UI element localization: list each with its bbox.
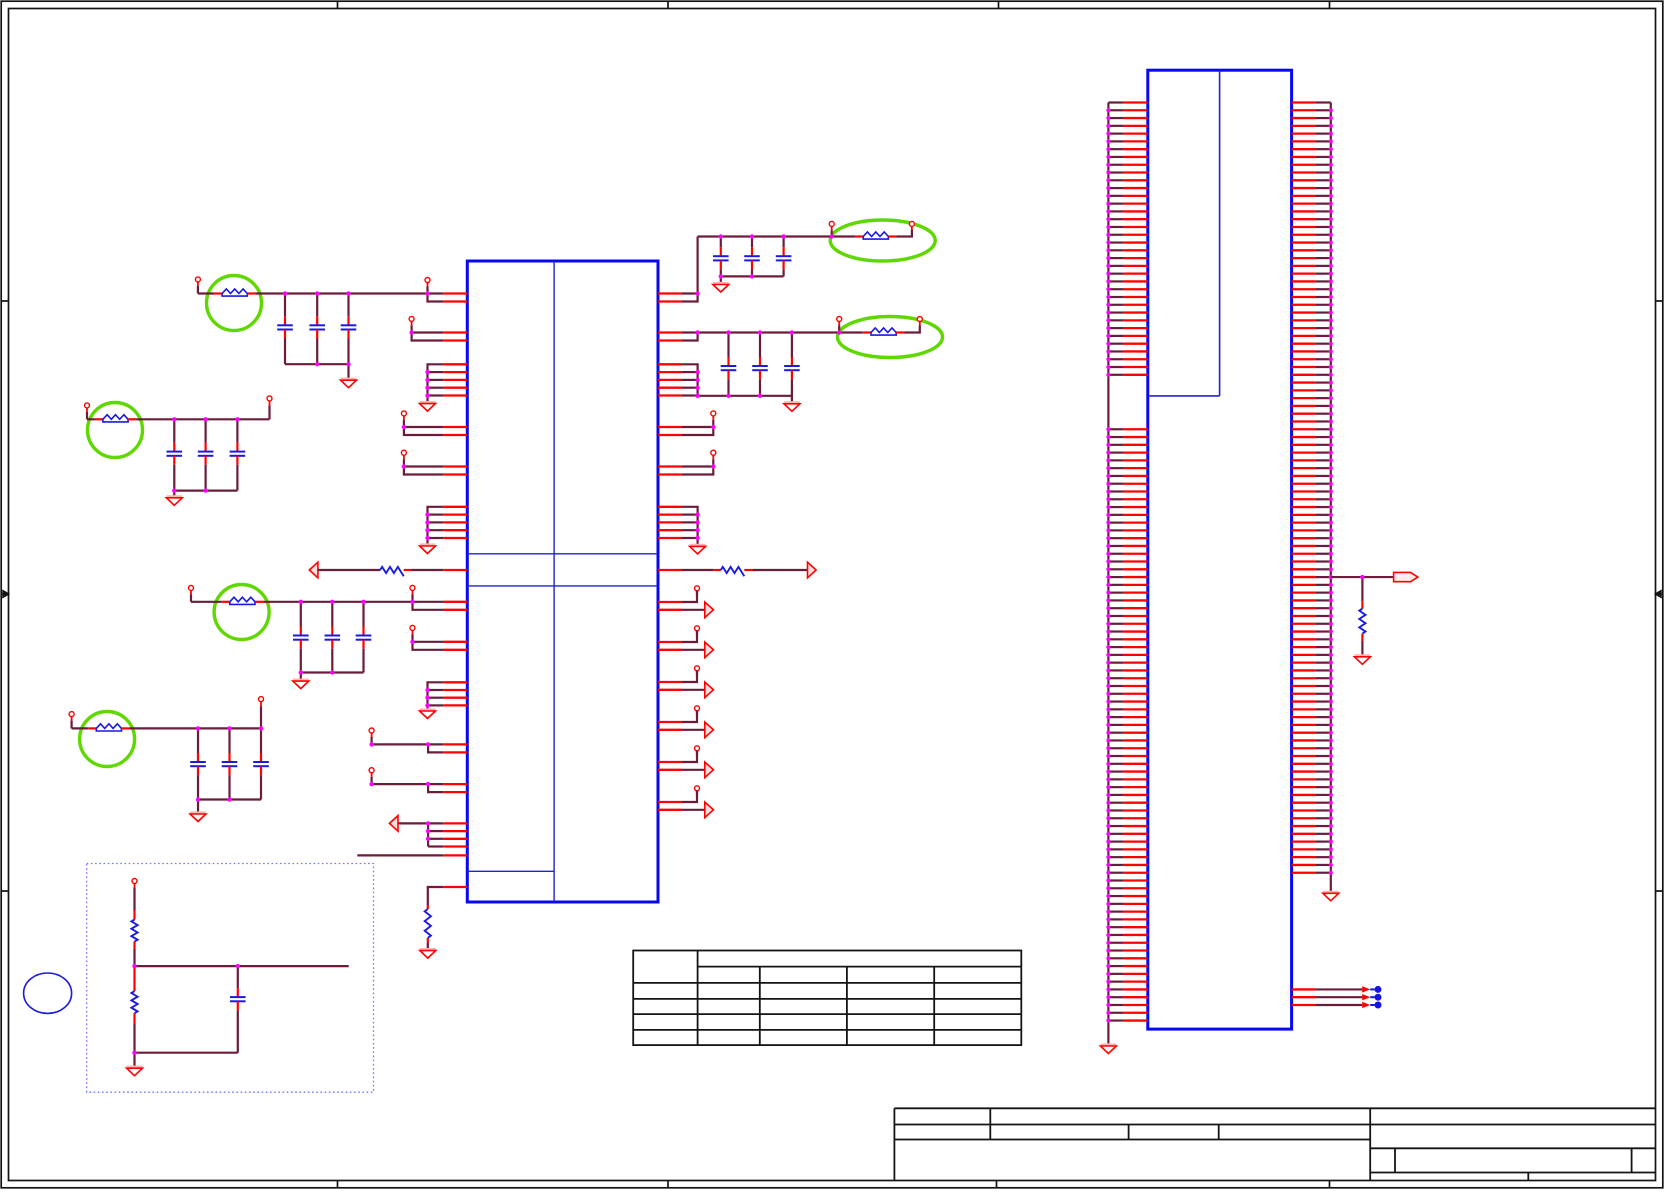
junction ground node	[132, 1051, 136, 1055]
frame zone tick right lower	[1656, 890, 1663, 892]
IC U1 right pin pair rows 762/769.8	[658, 762, 682, 770]
wire G2 bus vertical	[428, 507, 444, 546]
port P10	[369, 768, 374, 784]
wire ground stem dashed box	[133, 1053, 135, 1069]
junction circuit2 bus C14	[172, 488, 176, 492]
IC U1 right pin group G2R rows 506.8-538 (5 pins)	[658, 507, 682, 538]
port P12 circuitA right	[909, 221, 914, 230]
capacitor C15	[198, 419, 214, 490]
port P16	[711, 450, 716, 466]
wire arrow-group1 pinA to port riser	[682, 588, 697, 602]
capacitor C16	[230, 419, 246, 490]
resistor R6 lead top	[133, 968, 135, 991]
junction circuit3 bus C4	[299, 670, 303, 674]
resistor R1 row570 left	[380, 567, 404, 576]
IC U1 left pin row 855.4	[443, 854, 467, 856]
resistor R2 lead bottom	[427, 938, 429, 943]
wire row570 right 1	[682, 569, 713, 571]
capacitor C9	[776, 237, 792, 277]
frame zone tick left lower	[1, 890, 8, 892]
junction circuitA port/bead	[830, 234, 834, 238]
frame zone tick top 4	[1329, 1, 1331, 8]
junction circuitA C7	[719, 234, 723, 238]
junction LE port	[369, 782, 373, 786]
ground circuit2	[166, 495, 182, 498]
capacitor C14	[167, 419, 183, 490]
wire arrow-group3 pinB	[682, 689, 705, 691]
junction circuit1 bus C2	[315, 362, 319, 366]
wire arrow-group2 pinB	[682, 649, 705, 651]
capacitor C13	[230, 966, 246, 1053]
wire circuit5 cap bottom bus	[198, 798, 261, 800]
wire special net row61 to off-page	[1331, 576, 1394, 578]
capacitor C3	[341, 294, 357, 365]
junction L1 port	[425, 291, 429, 295]
IC U1 left pin pair rows 784.1/792.1	[443, 784, 467, 792]
port P23 dashed box	[132, 879, 137, 911]
ground connector right	[1323, 891, 1339, 894]
IC U1 right pin pair rows 642/649.8	[658, 642, 682, 650]
port P11 circuitA left	[829, 221, 834, 236]
junction circuit3 C6	[361, 600, 365, 604]
wire circuitB top bus	[698, 331, 840, 333]
port P18	[695, 626, 700, 635]
capacitor C6	[356, 602, 372, 673]
junction circuit1 cap C1	[283, 291, 287, 295]
wire circuitB ground stem	[791, 396, 793, 404]
wire R5 to node	[133, 949, 135, 966]
IC U1 left pin group G3 rows 682-705 (4 pins)	[443, 682, 467, 705]
ferrite bead FB4 lead left	[863, 331, 871, 333]
IC U1 right pin pair rows 602/609.8	[658, 602, 682, 610]
ground G2 left	[420, 543, 436, 546]
ground G3 left	[420, 708, 436, 711]
ground circuit5	[190, 811, 206, 814]
junction special row61 resistor tap	[1360, 575, 1364, 579]
resistor R4 lead bottom	[1361, 634, 1363, 641]
junction circuit3 C4	[299, 600, 303, 604]
green highlight circle around FB6	[80, 712, 135, 767]
frame zone tick top 3	[998, 1, 1000, 8]
junction L2 port	[409, 330, 413, 334]
wire circuit1 cap bottom bus	[285, 363, 349, 365]
ferrite bead FB1 lead left	[214, 292, 222, 294]
junction circuit3 bus C5	[330, 670, 334, 674]
junction R1 riser	[695, 291, 699, 295]
ferrite bead FB2 lead left	[222, 601, 230, 603]
arrow port right group2	[705, 642, 714, 658]
revision table	[633, 951, 1021, 1046]
blue ellipse marker	[24, 973, 72, 1013]
port P8	[410, 625, 415, 641]
green highlight ellipse around FB3	[830, 220, 935, 261]
frame zone tick bottom 3	[996, 1181, 998, 1188]
wire circuit3 ground stem	[300, 673, 302, 682]
connector J1 internal compartment vertical	[1219, 70, 1221, 396]
IC U1 internal divider horizontal bottom-left	[467, 870, 554, 872]
wire circuitA ground stem	[720, 276, 722, 284]
junction circuitA bus C8	[750, 274, 754, 278]
wire special row61 down	[1361, 577, 1363, 601]
ferrite bead FB6 lead left	[88, 727, 96, 729]
wire G1 bus vertical	[428, 364, 444, 403]
IC U1 internal divider horizontal upper	[467, 553, 658, 555]
frame zone tick bottom 4	[1329, 1181, 1331, 1188]
junction circuit5 C17	[196, 726, 200, 730]
wire pair LC loop	[413, 642, 444, 650]
port P33 circuit5 right stem	[260, 702, 262, 707]
capacitor C10	[721, 333, 737, 396]
IC U1 right pin pair rows 293.5/301.5	[658, 294, 682, 302]
wire circuit3 left segment	[191, 601, 222, 603]
wire pin2 loop L1	[428, 294, 444, 302]
port P9	[369, 728, 374, 744]
wire row570 left	[318, 569, 380, 571]
wire circuitB to bead	[839, 331, 863, 333]
ferrite bead FB3 lead right	[888, 235, 896, 237]
wire circuit5 right riser	[260, 706, 262, 728]
ferrite bead FB4 lead right	[896, 331, 904, 333]
junction circuit2 bus C15	[203, 488, 207, 492]
arrow port right row570	[808, 562, 817, 578]
terminal blue dot 2	[1370, 996, 1374, 998]
ferrite bead FB6 lead right	[122, 727, 130, 729]
off-page connector pennant	[1394, 572, 1418, 581]
wire circuitB right end	[904, 326, 919, 333]
junction G4 top	[426, 821, 430, 825]
wire pin2 loop LB	[413, 602, 444, 610]
green highlight circle around FB1	[207, 276, 262, 331]
junction circuitB C11	[758, 330, 762, 334]
wire G3 pin returns	[425, 688, 443, 708]
port P13 circuitB left	[837, 317, 842, 333]
wire G3 bus vertical	[428, 682, 444, 711]
wire circuit3 to IC	[263, 601, 443, 603]
arrow port right group1	[705, 602, 714, 618]
title block	[894, 1108, 1655, 1180]
wire circuitA top bus	[698, 235, 832, 237]
wire pair LD loop	[372, 744, 444, 752]
junction circuit1 cap C3	[346, 291, 350, 295]
junction LD loop	[426, 742, 430, 746]
wire circuitA cap bottom bus	[721, 275, 784, 277]
wire circuit2 main	[136, 418, 269, 420]
resistor R6 vertical	[131, 991, 137, 1013]
wire circuit1 ground stem	[347, 364, 349, 380]
junction circuit2 C14	[172, 417, 176, 421]
wire G1R bus vertical	[682, 364, 698, 396]
wire circuitA right end	[896, 230, 912, 237]
wire pair R4 loop	[682, 467, 713, 475]
ground circuit3	[293, 679, 309, 682]
ferrite bead FB1 lead right	[247, 292, 255, 294]
wire R2 to ground	[427, 943, 429, 951]
IC U1 left pin pair rows 293.5/301.5	[443, 294, 467, 302]
junction circuitB C12	[790, 330, 794, 334]
wire circuitB cap bottom bus	[698, 395, 792, 397]
terminal arrow 3	[1362, 1002, 1370, 1008]
ground circuitA	[713, 282, 729, 285]
ferrite bead FB2 lead right	[255, 601, 263, 603]
frame zone tick top 1	[337, 1, 339, 8]
port P22	[695, 786, 700, 795]
resistor R3 row570 right	[721, 567, 745, 576]
IC U1 left pin pair rows 427/435	[443, 427, 467, 435]
connector J1 right pin field (100 pins)	[1292, 103, 1333, 875]
terminal arrow 1	[1362, 986, 1370, 992]
port P30 circuit2 left	[85, 403, 90, 419]
ground circuit1	[341, 378, 357, 381]
wire arrow-group4 pinB	[682, 729, 705, 731]
frame mid arrow left edge	[1, 591, 8, 598]
capacitor C2	[309, 294, 325, 365]
IC U1 left pin row 570	[443, 569, 467, 571]
port P3	[409, 316, 414, 332]
junction circuitB bus C11	[758, 394, 762, 398]
wire circuit2 cap bottom bus	[174, 490, 237, 492]
wire arrow-group5 pinB	[682, 769, 705, 771]
resistor R2 lead top	[427, 905, 429, 909]
IC U1 left pin pair rows 744.4/752.4	[443, 744, 467, 752]
wire bottom return	[135, 1052, 238, 1054]
wire circuit3 cap bottom bus	[301, 671, 364, 673]
junction R3 port	[711, 425, 715, 429]
wire circuit5 left segment	[72, 727, 89, 729]
port P31 circuit2 right	[267, 396, 272, 401]
IC U1 left pin group G2 rows 506.8-538 (5 pins)	[443, 507, 467, 538]
ground below R2	[420, 948, 436, 951]
frame zone tick left	[1, 300, 8, 302]
junction circuitB bus C10	[726, 394, 730, 398]
wire circuit2 left segment	[87, 418, 95, 420]
junction circuit5 C18	[227, 726, 231, 730]
ground G1 left	[420, 401, 436, 404]
arrow port left G4	[389, 816, 398, 832]
ferrite bead FB1	[222, 289, 247, 294]
frame zone tick right	[1656, 300, 1663, 302]
junction circuit5 C19	[259, 726, 263, 730]
wire circuit5 ground stem	[197, 800, 199, 815]
wire pair L3 loop	[404, 427, 443, 435]
wire arrow-group3 pinA to port riser	[682, 668, 697, 682]
resistor R5 lead top	[133, 910, 135, 920]
junction circuit1 cap C2	[315, 291, 319, 295]
green highlight ellipse around FB4	[838, 317, 943, 358]
IC U1 right pin pair rows 682/689.8	[658, 682, 682, 690]
IC U1 body	[467, 261, 658, 902]
wire arrow-group1 pinB	[682, 609, 705, 611]
wire G2R bus vertical	[682, 507, 698, 547]
ferrite bead FB3	[863, 232, 888, 237]
terminal blue dot 3	[1370, 1004, 1374, 1006]
junction circuit1 bus C3	[346, 362, 350, 366]
junction R2	[695, 330, 699, 334]
IC U1 internal divider vertical	[553, 261, 555, 902]
connector J1 body	[1148, 70, 1292, 1029]
IC U1 left pin group G1 rows 364-395 (5 pins)	[443, 364, 467, 395]
frame zone tick bottom 1	[337, 1181, 339, 1188]
arrow port right group4	[705, 722, 714, 738]
junction L3 port	[402, 425, 406, 429]
connector J1 bottom-right terminal pins (3)	[1292, 989, 1363, 1005]
green highlight circle around FB5	[88, 403, 143, 458]
resistor R3 lead left	[713, 569, 721, 571]
port P33 circuit5 right	[259, 697, 264, 702]
ground dashed box	[127, 1066, 143, 1069]
port P20	[695, 706, 700, 715]
wire G1 pin returns	[425, 370, 443, 398]
capacitor C17	[190, 728, 206, 799]
resistor R3 lead right	[744, 569, 753, 571]
port P21	[695, 746, 700, 755]
arrow port left row 570	[309, 562, 318, 578]
wire to pulldown resistor R2	[428, 887, 444, 905]
port P4	[401, 411, 406, 427]
arrow port right group3	[705, 682, 714, 698]
frame mid arrow right edge	[1655, 591, 1662, 598]
IC U1 right pin pair rows 332.5/340.5	[658, 333, 682, 341]
resistor R5 lead bottom	[133, 942, 135, 949]
connector J1 left pin field A (36 pins)	[1106, 103, 1148, 377]
junction LB port	[410, 600, 414, 604]
junction circuitB C10	[726, 330, 730, 334]
port P6	[410, 585, 415, 601]
wire arrow-group5 pinA to port riser	[682, 748, 697, 762]
capacitor C4	[293, 602, 309, 673]
capacitor C18	[222, 728, 238, 799]
green highlight circle around FB2	[214, 585, 269, 640]
ground below R4	[1354, 654, 1370, 657]
connector J1 left pin field B (77 pins)	[1106, 427, 1148, 1022]
arrow port right group6	[705, 802, 714, 818]
ferrite bead FB6	[96, 724, 121, 729]
IC U1 right pin group G1R rows 364-395 (5 pins)	[658, 364, 682, 395]
capacitor C12	[784, 333, 800, 396]
junction circuit5 bus C17	[196, 797, 200, 801]
wire circuitA to bead	[832, 235, 855, 237]
junction R4 port	[711, 464, 715, 468]
wire pair R3 loop	[682, 427, 713, 435]
resistor R5 vertical	[131, 920, 137, 942]
ground G2 right	[690, 544, 706, 547]
junction circuit3 C5	[330, 600, 334, 604]
ferrite bead FB5 lead left	[95, 418, 103, 420]
IC U1 left pin pair rows 466.5/474.5	[443, 467, 467, 475]
junction LE loop	[426, 782, 430, 786]
wire G4 pin returns	[426, 829, 443, 847]
wire net VCC1 horizontal	[255, 292, 443, 294]
junction L4 port	[402, 464, 406, 468]
capacitor C1	[277, 294, 293, 365]
terminal arrow 2	[1362, 994, 1370, 1000]
IC U1 internal divider horizontal lower	[467, 585, 658, 587]
IC U1 right pin pair rows 427/435	[658, 427, 682, 435]
port P14 circuitB right	[917, 317, 922, 327]
resistor R6 lead bottom	[133, 1013, 135, 1024]
port P5	[401, 450, 406, 466]
wire row570 right 2	[753, 569, 808, 571]
ferrite bead FB5	[103, 415, 128, 420]
ferrite bead FB5 lead right	[128, 418, 136, 420]
dashed selection box	[87, 864, 374, 1093]
resistor R2 vertical	[425, 909, 431, 938]
wire pair LE loop	[372, 784, 444, 792]
wire pair L4 loop	[404, 467, 443, 475]
wire G2 pin returns	[425, 512, 443, 540]
connector J1 internal compartment horizontal	[1150, 395, 1220, 397]
wire pair R2 to bus	[682, 333, 698, 341]
junction circuit2 C15	[203, 417, 207, 421]
junction LD port	[369, 742, 373, 746]
wire arrow-group4 pinA to port riser	[682, 708, 697, 722]
IC U1 left pin pair rows 332.5/340.5	[443, 333, 467, 341]
capacitor C8	[744, 237, 760, 277]
IC U1 left pin pair rows 601.8/609.8	[443, 602, 467, 610]
junction circuitA bus C7	[719, 274, 723, 278]
IC U1 right pin pair rows 466.5/474.5	[658, 467, 682, 475]
wire row570 to IC	[411, 569, 443, 571]
ground circuitB	[784, 401, 800, 404]
wire circuit2 right riser	[268, 405, 270, 419]
wire G4 bus vertical	[398, 823, 443, 846]
wire circuit5 main	[130, 727, 262, 729]
ground connector left	[1100, 1043, 1116, 1046]
wire circuit2 ground stem	[173, 491, 175, 498]
frame zone tick bottom 2	[667, 1181, 669, 1188]
port P31 circuit2 right stem	[269, 401, 271, 405]
wire arrow-group2 pinA to port riser	[682, 628, 697, 642]
resistor R4 lead top	[1361, 601, 1363, 608]
port P15	[711, 411, 716, 427]
junction circuit2 C16	[235, 417, 239, 421]
wire circuit1 left segment	[198, 292, 214, 294]
wire arrow-group6 pinB	[682, 809, 705, 811]
port P7 circuit3 left	[189, 585, 194, 601]
port P2 circuit1 left	[195, 277, 200, 294]
wire pair L2 loop	[412, 333, 444, 341]
resistor R4 vertical	[1359, 609, 1365, 634]
IC U1 left pin pair rows 641.8/649.8	[443, 642, 467, 650]
junction node A	[132, 964, 136, 968]
port P17	[695, 586, 700, 595]
wire G1R pin returns	[682, 370, 700, 398]
capacitor C5	[325, 602, 341, 673]
capacitor C11	[752, 333, 768, 396]
arrow port right group5	[705, 762, 714, 778]
wire row 855.4	[357, 854, 443, 856]
IC U1 right pin pair rows 722/729.8	[658, 722, 682, 730]
junction circuitA C9	[781, 234, 785, 238]
port P32 circuit5 left	[69, 712, 74, 729]
wire connector left ground bus	[1107, 103, 1109, 1047]
junction circuitA C8	[750, 234, 754, 238]
IC U1 right pin pair rows 802/809.8	[658, 802, 682, 810]
junction circuitB bus left	[695, 394, 699, 398]
IC U1 left pin row 887	[443, 886, 467, 888]
wire pair R1 to riser	[682, 237, 698, 302]
terminal blue dot 1	[1370, 988, 1374, 990]
ferrite bead FB3 lead left	[855, 235, 863, 237]
frame zone tick top 2	[667, 1, 669, 8]
wire connector right ground bus	[1330, 103, 1332, 894]
ferrite bead FB2	[230, 597, 255, 602]
resistor R1 lead right	[404, 569, 411, 571]
wire node A horizontal	[135, 965, 349, 967]
IC U1 left pin group G4 rows 823-847 (4 pins)	[443, 823, 467, 846]
wire R4 to ground	[1361, 641, 1363, 657]
IC U1 right pin row 570	[658, 569, 682, 571]
junction circuitB port/bead	[837, 330, 841, 334]
